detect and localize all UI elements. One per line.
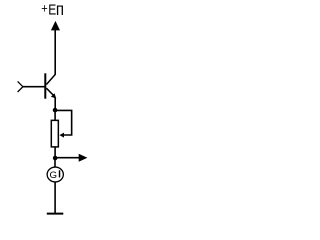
wiper arrowhead — [59, 133, 64, 138]
power arrow up — [51, 21, 60, 31]
wire base lead — [23, 86, 45, 88]
power label +Eп : letter E — [48, 1, 56, 17]
node junction dot upper — [53, 108, 58, 113]
wire output — [55, 157, 79, 159]
transistor VT base bar — [44, 73, 46, 98]
svg-text:п: п — [56, 0, 64, 19]
wire resistor to node — [54, 147, 56, 158]
power label +Eп : plus sign — [41, 0, 47, 15]
input chevron — [18, 81, 23, 92]
generator GI circle — [47, 167, 63, 182]
generator label G — [50, 169, 58, 180]
generator label I — [59, 170, 60, 177]
wire generator to ground — [54, 182, 56, 214]
transistor collector diagonal — [46, 74, 55, 84]
wire emitter to node — [54, 98, 56, 111]
emitter arrowhead — [51, 93, 56, 98]
wire node to generator — [54, 158, 56, 168]
resistor R — [51, 120, 58, 147]
ground bar — [47, 213, 64, 215]
svg-text:+: + — [41, 0, 47, 15]
node junction dot lower — [53, 156, 58, 161]
svg-text:G: G — [50, 169, 58, 180]
wire collector vertical — [54, 29, 56, 75]
transistor emitter diagonal — [46, 88, 55, 97]
wire feedback loop — [55, 110, 72, 135]
power label +Eп : letter п — [56, 0, 64, 19]
output arrowhead — [79, 154, 88, 162]
wire node to resistor — [54, 110, 56, 121]
